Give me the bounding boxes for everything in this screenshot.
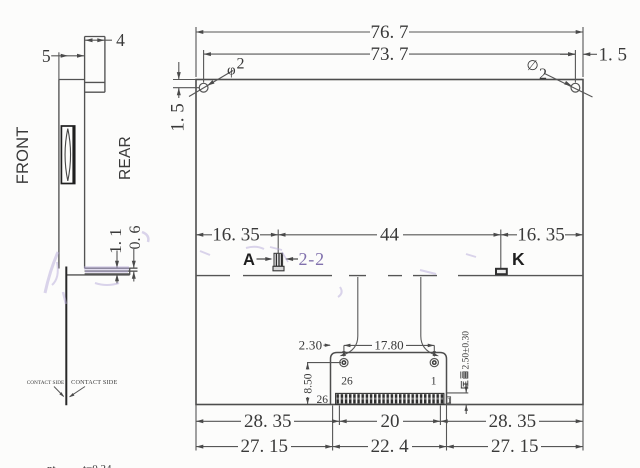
svg-text:2: 2	[539, 66, 547, 83]
svg-text:1. 1: 1. 1	[106, 228, 125, 254]
svg-text:28. 35: 28. 35	[489, 411, 537, 432]
ext line at K pad	[500, 230, 502, 269]
pin strip	[336, 393, 444, 404]
svg-text:76. 7: 76. 7	[371, 22, 409, 43]
svg-text:1: 1	[431, 376, 437, 388]
cathode pad	[496, 269, 507, 274]
svg-text:∅: ∅	[527, 59, 539, 74]
ext line at A pin	[277, 230, 279, 254]
svg-text:5: 5	[42, 46, 51, 66]
anode pin (hatched)	[274, 253, 283, 266]
svg-text:17.80: 17.80	[374, 338, 403, 353]
dimension 1.5 top right	[560, 53, 597, 55]
lens frame	[61, 126, 74, 184]
lens vesica	[65, 129, 71, 181]
dimension 1.1 (tail thickness)	[116, 251, 118, 284]
svg-text:28. 35: 28. 35	[244, 411, 292, 432]
pseudo CJK glyphs for 底面	[461, 372, 469, 389]
glass bottom edge line (broken by watermark)	[196, 275, 583, 277]
pin strip label 1	[447, 397, 451, 404]
svg-text:nt: nt	[47, 463, 56, 468]
contact strip top	[85, 267, 130, 269]
ext line 0.6 bottom	[130, 270, 138, 272]
leader from glass to connector right	[421, 277, 436, 355]
svg-text:φ: φ	[227, 63, 236, 79]
svg-text:0. 6: 0. 6	[127, 226, 144, 250]
contact strip right cap	[129, 268, 131, 275]
mounting hole left	[199, 83, 208, 92]
bracket step bottom	[85, 91, 105, 93]
lens frame thick right border	[72, 127, 74, 184]
label 2-2 leader	[286, 257, 293, 261]
svg-text:26: 26	[341, 376, 353, 388]
hole label phi2 left	[189, 71, 233, 97]
mounting hole right	[571, 83, 580, 92]
tail bottom line	[66, 274, 129, 276]
glass left edge	[58, 80, 60, 269]
svg-text:REAR: REAR	[117, 136, 134, 180]
contact side leader right	[70, 387, 85, 397]
svg-text:27. 15: 27. 15	[491, 436, 539, 457]
contact side leader left	[54, 387, 64, 397]
row 27.15 / 22.4 / 27.15	[196, 446, 238, 448]
dimension 4 (pcb thickness)	[85, 39, 112, 41]
pcb top cap	[85, 36, 105, 38]
connector hole right	[430, 359, 438, 367]
svg-text:1: 1	[447, 395, 451, 405]
dimension 2.30	[324, 344, 331, 346]
svg-text:8.50: 8.50	[302, 373, 314, 393]
connector body	[331, 353, 447, 405]
dimension 73.7	[204, 50, 576, 83]
svg-text:44: 44	[380, 224, 400, 245]
svg-text:CONTACT SIDE: CONTACT SIDE	[71, 379, 117, 386]
svg-text:2: 2	[237, 56, 245, 73]
svg-text:73. 7: 73. 7	[371, 44, 409, 65]
label REAR	[117, 136, 134, 180]
dimension 0.6 (contact thickness)	[133, 249, 135, 282]
svg-text:22. 4: 22. 4	[371, 436, 410, 457]
svg-text:2-2: 2-2	[299, 249, 325, 269]
dimension 76.7	[196, 27, 583, 77]
svg-text:A: A	[243, 251, 255, 269]
main outline rectangle	[196, 80, 583, 405]
hole label dia2 right	[545, 74, 593, 98]
svg-text:1. 5: 1. 5	[167, 103, 188, 132]
svg-text:20: 20	[381, 411, 400, 432]
svg-text:FRONT: FRONT	[14, 126, 32, 184]
svg-text:4: 4	[116, 30, 125, 50]
dimension 5 (glass thickness)	[51, 52, 84, 79]
svg-text:CONTACT SIDE: CONTACT SIDE	[27, 380, 65, 386]
dimension 1.5 top left	[173, 62, 200, 98]
svg-text:2.30: 2.30	[299, 338, 323, 353]
A leader	[257, 258, 272, 260]
svg-text:16. 35: 16. 35	[517, 224, 565, 245]
pcb left edge	[84, 37, 86, 269]
svg-text:1. 5: 1. 5	[599, 44, 628, 65]
dimension 8.50	[307, 363, 341, 405]
ext lines below	[195, 405, 197, 451]
dimension bottom face 2.50+-0.30	[447, 384, 469, 415]
tail thick vertical line	[65, 267, 67, 406]
bracket step top	[85, 81, 105, 83]
contact strip mid	[85, 270, 130, 272]
row 28.35 / 20 / 28.35	[196, 420, 241, 422]
dimension 17.80	[344, 345, 434, 356]
label FRONT	[14, 126, 32, 184]
dimension row 16.35 / 44 / 16.35	[196, 230, 583, 269]
connector hole left	[340, 359, 348, 367]
svg-text:t=0.24: t=0.24	[83, 463, 112, 468]
svg-text:2.50±0.30: 2.50±0.30	[461, 331, 471, 370]
svg-text:16. 35: 16. 35	[212, 224, 260, 245]
pcb right edge	[104, 37, 106, 93]
svg-text:26: 26	[317, 394, 329, 406]
svg-text:K: K	[512, 249, 525, 269]
svg-text:27. 15: 27. 15	[241, 436, 289, 457]
leader from glass to connector left	[343, 277, 358, 355]
ext line 0.6 top	[130, 267, 138, 269]
contact strip lower	[85, 273, 130, 275]
glass top edge	[59, 79, 85, 81]
